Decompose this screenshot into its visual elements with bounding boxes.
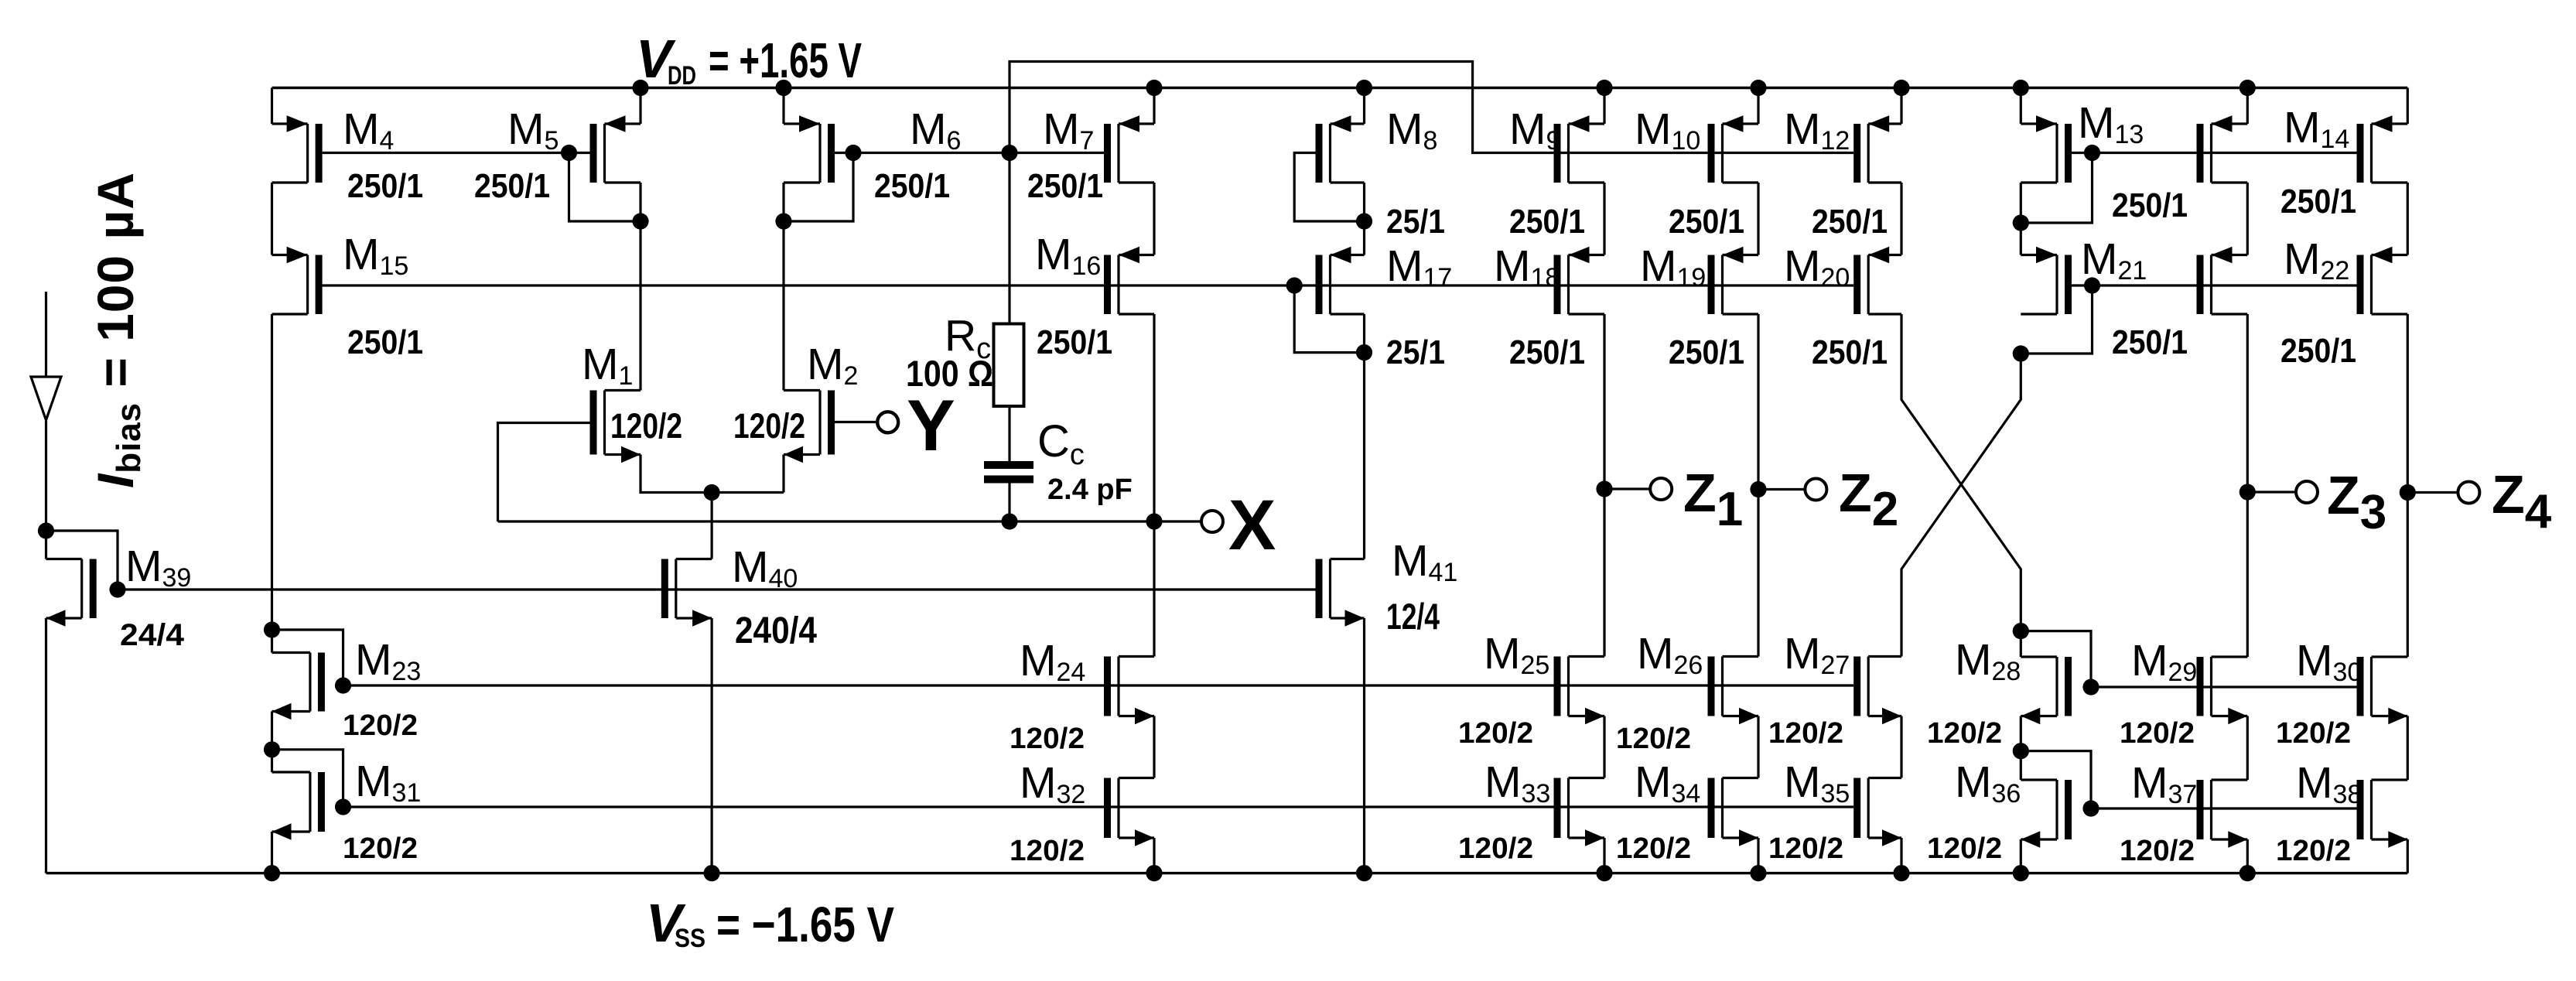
svg-text:120/2: 120/2	[2276, 717, 2351, 750]
wire M23 source down	[271, 712, 273, 750]
node VSS junction M27col	[1893, 865, 1909, 881]
node M23 drain junction	[264, 621, 280, 637]
wire VDD to M7 source	[1153, 88, 1155, 125]
node VDD junction M13	[2013, 80, 2029, 96]
wire M39 diode hook	[46, 531, 118, 590]
svg-text:250/1: 250/1	[2280, 183, 2356, 220]
wire M8 gate hook	[1294, 153, 1364, 222]
wire M28 source down	[2020, 716, 2022, 751]
wire M7 drain to M16 source	[1153, 183, 1155, 255]
wire M2 source down	[782, 455, 784, 493]
svg-text:120/2: 120/2	[2120, 835, 2195, 867]
transistor M21	[2021, 247, 2072, 314]
wire M2 gate to Y	[835, 421, 876, 423]
transistor M31	[272, 772, 325, 840]
wire M21-M22 gate line	[2072, 284, 2357, 286]
wire M36 drain stub	[2020, 751, 2022, 780]
node M28 gate junction	[2082, 678, 2099, 695]
transistor M27	[1853, 657, 1901, 725]
wire nmos mirror gate line	[118, 588, 1316, 590]
node VDD junction M7	[1146, 80, 1162, 96]
wire M36 diode hook	[2021, 751, 2091, 808]
transistor M25	[1554, 657, 1605, 725]
svg-text:250/1: 250/1	[1027, 167, 1103, 205]
node M6 drain junction	[775, 213, 791, 229]
node M39 gate junction	[109, 581, 125, 597]
wire M31 drain stub	[271, 750, 273, 772]
transistor M16	[1104, 247, 1154, 314]
svg-text:250/1: 250/1	[1669, 203, 1744, 241]
transistor M23	[272, 653, 325, 720]
transistor M29	[2197, 657, 2248, 724]
node VSS junction M29col	[2239, 865, 2256, 881]
node Z4 junction	[2400, 484, 2416, 501]
wire M36 source to VSS	[2020, 839, 2022, 873]
wire M5 drain down	[639, 183, 641, 391]
node VDD junction M12	[1893, 80, 1909, 96]
terminal Z4 circle	[2458, 482, 2479, 504]
wire nmos gate line row5 right	[2091, 807, 2357, 809]
svg-text:DD: DD	[668, 61, 696, 91]
svg-text:120/2: 120/2	[2120, 717, 2195, 750]
wire M33 source to VSS	[1603, 838, 1605, 873]
node M31 drain junction	[264, 741, 280, 757]
wire M27 source to M35 drain	[1900, 716, 1902, 778]
svg-text:120/2: 120/2	[733, 406, 805, 446]
node M17 gate junction	[1286, 277, 1303, 293]
transistor M32	[1104, 778, 1154, 846]
wire M17 drain upper seg	[1363, 314, 1365, 353]
resistor Rc	[994, 324, 1024, 407]
wire VDD to colB source	[2246, 88, 2249, 125]
node Z3 junction	[2239, 484, 2256, 500]
wire colB drain to Z3	[2246, 314, 2249, 492]
wire M8 drain to M17 source	[1363, 183, 1365, 255]
wire M17 diode hook	[1294, 285, 1364, 353]
transistor M10	[1708, 115, 1759, 183]
transistor M39	[46, 559, 97, 627]
wire M23 drain stub	[271, 630, 273, 653]
node M31 gate junction	[335, 798, 351, 815]
node compensation tap	[1001, 145, 1017, 161]
wire M39 source to VSS	[45, 618, 47, 873]
transistor M13	[2021, 115, 2072, 183]
svg-text:120/2: 120/2	[1010, 835, 1085, 867]
svg-text:250/1: 250/1	[1037, 323, 1112, 361]
wire VDD to M14 source	[2407, 88, 2409, 125]
node Z2 junction	[1750, 481, 1766, 497]
svg-text:120/2: 120/2	[1768, 717, 1843, 750]
svg-text:250/1: 250/1	[347, 323, 423, 361]
wire M13-M14 gate line	[2072, 152, 2357, 154]
transistor M12	[1853, 115, 1901, 183]
node M21 drain junction	[2013, 345, 2029, 361]
node M5 gate junction	[561, 145, 577, 161]
node VSS junction M23col	[264, 865, 280, 881]
node VSS junction M25col	[1596, 865, 1612, 881]
transistor M19	[1708, 247, 1759, 314]
wire M23 diode hook	[272, 630, 343, 685]
wire M40 source to VSS	[710, 618, 712, 873]
node VDD junction colB	[2239, 80, 2256, 96]
wire nmos mirror gate line row5	[343, 805, 1854, 808]
wire VDD rail	[272, 87, 2408, 89]
svg-text:120/2: 120/2	[610, 406, 682, 446]
transistor M41	[1316, 559, 1365, 627]
wire VDD to M10 source	[1757, 88, 1759, 125]
transistor M20	[1853, 247, 1901, 314]
wire M38 source to VSS	[2407, 839, 2409, 873]
node M36 gate junction	[2082, 800, 2099, 816]
transistor M24	[1104, 657, 1154, 725]
wire M19 drain to Z2	[1757, 314, 1759, 489]
svg-text:250/1: 250/1	[474, 167, 550, 205]
wire VDD to M5 source	[639, 88, 641, 125]
wire M25 source to M33 drain	[1603, 716, 1605, 778]
svg-text:120/2: 120/2	[1927, 832, 2002, 865]
svg-text:250/1: 250/1	[1812, 203, 1888, 241]
node M5 drain junction	[632, 213, 648, 229]
svg-text:240/4: 240/4	[735, 610, 817, 651]
wire M15 drain down left column	[271, 314, 273, 630]
wire nmos cascode gate line row4	[343, 684, 1854, 686]
wire X to M24 drain	[1153, 521, 1155, 657]
transistor M15	[272, 247, 323, 314]
transistor M2	[784, 391, 835, 463]
transistor M4	[272, 115, 323, 183]
wire M1 gate feedback	[498, 423, 590, 522]
node M23 gate junction	[335, 677, 351, 693]
node M8 drain junction	[1356, 213, 1372, 229]
node VSS junction M40	[704, 865, 720, 881]
svg-text:250/1: 250/1	[2112, 186, 2188, 224]
transistor M22	[2357, 247, 2408, 314]
wire M17 drain to M41	[1363, 353, 1365, 559]
wire M5 diode hook	[569, 153, 641, 222]
svg-text:= +1.65 V: = +1.65 V	[709, 32, 862, 88]
node M13 drain junction	[2013, 214, 2029, 231]
node M21 gate junction	[2084, 277, 2100, 293]
node VSS junction M41	[1356, 865, 1372, 881]
wire M22 drain to Z4	[2407, 314, 2409, 492]
wire M16 drain to X	[1153, 314, 1155, 521]
svg-text:250/1: 250/1	[1509, 203, 1585, 241]
wire Z3 column down	[2246, 493, 2249, 658]
wire Cc to X line	[1008, 484, 1010, 522]
node VSS junction M26col	[1750, 865, 1766, 881]
wire M31 source to VSS	[271, 832, 273, 873]
svg-text:120/2: 120/2	[1927, 717, 2002, 750]
svg-text:120/2: 120/2	[1616, 832, 1691, 865]
svg-text:250/1: 250/1	[874, 167, 950, 205]
svg-text:120/2: 120/2	[2276, 835, 2351, 867]
terminal Z2 circle	[1805, 479, 1826, 501]
wire X node line	[498, 520, 1201, 522]
wire M35 source to VSS	[1900, 838, 1902, 873]
wire M30 source to M38 drain	[2407, 716, 2409, 781]
svg-text:250/1: 250/1	[1509, 333, 1585, 371]
wire M34 source to VSS	[1757, 838, 1759, 873]
svg-text:= −1.65 V: = −1.65 V	[716, 897, 894, 952]
wire nmos gate line row4 right	[2091, 685, 2357, 688]
svg-text:250/1: 250/1	[1812, 333, 1888, 371]
wire M20 drain cross to right	[1901, 314, 2021, 631]
wire M1 source down	[641, 455, 784, 493]
node VSS junction M24col	[1146, 865, 1162, 881]
label VSS	[646, 893, 894, 953]
wire M28 drain stub	[2020, 631, 2022, 657]
wire M10 drain to M19 source	[1757, 183, 1759, 255]
wire M21 drain cross to left	[1901, 354, 2021, 657]
wire M26 source to M34 drain	[1757, 716, 1759, 778]
wire M6-M7 gate line	[835, 152, 1104, 154]
wire Z2 column down	[1757, 489, 1759, 657]
wire over-rail jumper	[1010, 62, 1853, 153]
transistor colB bottom	[2197, 247, 2248, 314]
capacitor Cc	[984, 461, 1033, 484]
wire VDD to M6 source	[782, 88, 784, 125]
wire VDD to M12 source	[1900, 88, 1902, 125]
transistor M30	[2357, 657, 2408, 724]
wire M13 diode hook	[2021, 153, 2092, 224]
svg-text:120/2: 120/2	[1010, 723, 1085, 755]
wire Z1 stub	[1604, 487, 1651, 490]
node M13 gate junction	[2084, 145, 2100, 161]
transistor M26	[1708, 657, 1759, 725]
node VDD junction M10	[1750, 80, 1766, 96]
wire VSS rail	[46, 872, 2408, 874]
svg-text:120/2: 120/2	[343, 832, 418, 865]
transistor M38	[2357, 780, 2408, 848]
svg-text:120/2: 120/2	[343, 709, 418, 742]
node VSS junction M28col	[2013, 865, 2029, 881]
svg-text:250/1: 250/1	[1669, 333, 1744, 371]
wire M12 drain to M20 source	[1900, 183, 1902, 255]
transistor colB top	[2197, 115, 2248, 183]
node VDD junction M5	[632, 80, 648, 96]
wire VDD to M9 source	[1603, 88, 1605, 125]
transistor M35	[1853, 778, 1901, 846]
wire M32 source to VSS	[1153, 838, 1155, 873]
transistor M9	[1554, 115, 1605, 183]
wire M14 drain to M22 source	[2407, 183, 2409, 255]
svg-text:250/1: 250/1	[347, 167, 423, 205]
wire M21 diode hook	[2021, 285, 2092, 354]
wire M13 drain to M21 source	[2020, 183, 2022, 255]
svg-text:250/1: 250/1	[2280, 332, 2356, 370]
svg-text:12/4: 12/4	[1386, 596, 1440, 637]
wire M6 drain down	[782, 183, 784, 391]
svg-text:SS: SS	[675, 924, 705, 953]
transistor M6	[784, 115, 835, 183]
node M6 gate junction	[845, 145, 861, 161]
node M36 drain junction	[2013, 743, 2029, 759]
svg-text:250/1: 250/1	[2112, 323, 2188, 361]
terminal Z1 circle	[1650, 478, 1672, 500]
svg-text:X: X	[1228, 486, 1276, 565]
node VDD junction M6	[775, 80, 791, 96]
wire Ibias lower	[45, 421, 47, 531]
wire M6 diode hook	[784, 153, 853, 222]
wire Z3 stub	[2247, 490, 2296, 493]
wire M37 source to VSS	[2246, 839, 2249, 873]
node VDD junction M8	[1356, 80, 1372, 96]
wire Z4 column down	[2407, 492, 2409, 657]
transistor M17	[1316, 247, 1365, 314]
svg-text:120/2: 120/2	[1616, 723, 1691, 755]
wire M9 drain to M18 source	[1603, 183, 1605, 255]
transistor M40	[661, 559, 712, 627]
wire gate node to Rc	[1008, 153, 1010, 324]
svg-text:2.4 pF: 2.4 pF	[1047, 473, 1133, 506]
transistor M18	[1554, 247, 1605, 314]
node X junction	[1146, 513, 1162, 529]
transistor M14	[2357, 115, 2408, 183]
node M28 drain junction	[2013, 623, 2029, 639]
node M39 drain junction	[38, 522, 54, 538]
current source arrow	[31, 377, 61, 420]
wire Z2 stub	[1758, 488, 1806, 490]
wire VDD to M13 source	[2020, 88, 2022, 125]
transistor M33	[1554, 778, 1605, 846]
wire Rc to Cc	[1008, 406, 1010, 461]
node Z1 junction	[1596, 480, 1612, 497]
svg-text:120/2: 120/2	[1458, 717, 1533, 750]
wire pmos cascode bias line	[323, 284, 1854, 286]
wire M31 diode hook	[272, 750, 343, 807]
svg-text:120/2: 120/2	[1458, 832, 1533, 865]
node Cc bottom junction	[1001, 513, 1017, 529]
terminal X circle	[1201, 511, 1223, 532]
wire M29 source to M37 drain	[2246, 716, 2249, 781]
wire M28 diode hook	[2021, 631, 2091, 687]
label VDD	[636, 29, 862, 91]
wire colB drain chain	[2246, 183, 2249, 255]
terminal Z3 circle	[2296, 481, 2318, 503]
wire M24 source to M32 drain	[1153, 716, 1155, 778]
transistor M37	[2197, 780, 2248, 848]
wire VDD to M8 source	[1363, 88, 1365, 125]
node VDD junction M9	[1596, 80, 1612, 96]
svg-text:Y: Y	[907, 385, 955, 466]
wire M41 source to VSS	[1363, 618, 1365, 873]
wire M4 drain to M15 source	[271, 183, 273, 255]
transistor M7	[1104, 115, 1154, 183]
wire M39 drain stub	[45, 531, 47, 559]
wire M18 drain to Z1	[1603, 314, 1605, 489]
svg-text:25/1: 25/1	[1386, 333, 1445, 371]
wire tail to M40 drain	[710, 493, 712, 559]
node M17 drain junction	[1356, 344, 1372, 361]
transistor M1	[590, 391, 641, 463]
transistor M34	[1708, 778, 1759, 846]
transistor M28	[2021, 657, 2072, 724]
node tail junction	[704, 484, 720, 501]
transistor M5	[590, 115, 641, 183]
wire VDD to M4 source	[271, 88, 273, 125]
svg-text:120/2: 120/2	[1768, 832, 1843, 865]
wire M4-M5 gate line	[323, 152, 590, 154]
terminal Y circle	[877, 412, 898, 432]
transistor M36	[2021, 780, 2072, 848]
wire Z4 stub	[2407, 491, 2458, 494]
svg-text:25/1: 25/1	[1386, 203, 1445, 241]
svg-text:24/4: 24/4	[120, 618, 185, 652]
wire Ibias upper	[45, 292, 47, 377]
wire Z1 column down	[1603, 489, 1605, 657]
transistor M8	[1316, 115, 1365, 183]
